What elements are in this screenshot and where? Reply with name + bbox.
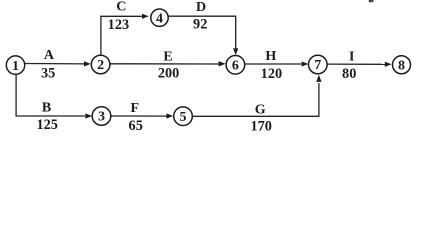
svg-text:I: I [349, 50, 354, 65]
node 5 [174, 107, 193, 126]
svg-text:C: C [116, 0, 126, 15]
node 7 [309, 55, 328, 74]
svg-text:5: 5 [180, 110, 187, 125]
wire F arrow 3-5 [111, 115, 167, 117]
svg-text:A: A [44, 48, 55, 63]
scan artifact top edge [369, 0, 374, 2]
wire A arrow 1-2 [25, 63, 85, 65]
svg-text:F: F [131, 101, 140, 116]
node 8 [393, 56, 411, 74]
svg-text:92: 92 [193, 17, 207, 33]
svg-text:3: 3 [98, 110, 105, 125]
svg-text:120: 120 [261, 66, 282, 82]
wire D path 4-6 [168, 16, 235, 48]
wire H arrow 6-7 [245, 63, 302, 65]
node 3 [92, 107, 111, 126]
wire C path 2-4 [101, 16, 142, 55]
svg-text:1: 1 [12, 59, 19, 74]
svg-text:35: 35 [41, 66, 55, 82]
svg-text:G: G [255, 102, 266, 117]
svg-text:E: E [163, 50, 172, 65]
svg-text:8: 8 [398, 59, 405, 74]
wire I arrow 7-8 [327, 63, 385, 65]
svg-text:123: 123 [108, 17, 129, 33]
wire B path 1-3 [16, 74, 85, 116]
svg-text:65: 65 [129, 118, 143, 134]
wire G path 5-7 [192, 83, 319, 116]
node 2 [91, 55, 110, 74]
svg-text:200: 200 [158, 66, 179, 82]
svg-text:4: 4 [156, 11, 163, 26]
svg-text:125: 125 [36, 117, 57, 133]
svg-text:7: 7 [314, 58, 321, 73]
svg-text:2: 2 [97, 58, 104, 73]
svg-text:B: B [42, 100, 51, 115]
svg-text:H: H [265, 49, 276, 64]
svg-text:D: D [196, 0, 206, 15]
node 6 [226, 56, 245, 75]
wire E arrow 2-6 [110, 63, 219, 65]
svg-text:170: 170 [250, 119, 271, 135]
node 1 [6, 56, 24, 74]
node 4 [151, 9, 168, 26]
svg-text:80: 80 [342, 66, 356, 82]
svg-text:6: 6 [232, 59, 239, 74]
